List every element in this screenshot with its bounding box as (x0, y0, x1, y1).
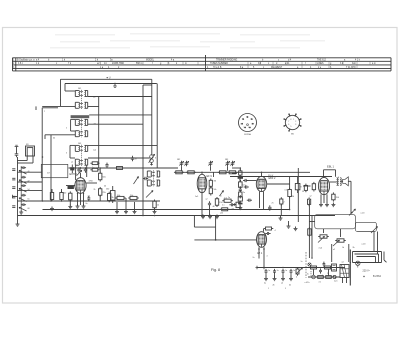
resistor R7 osc grid (115, 195, 126, 200)
ground left chain bottom (16, 222, 20, 226)
junction det a (240, 180, 242, 182)
resistor R13 on bus (227, 171, 237, 174)
svg-text:568 m: 568 m (136, 63, 142, 65)
capacitor C16 below V2 (229, 203, 234, 206)
label S1 (78, 88, 81, 90)
label tone values (362, 244, 367, 246)
wire loop B (355, 254, 379, 263)
label 100k det (243, 192, 246, 194)
wave switch contact SAc (19, 188, 27, 192)
wire mixer top lead (80, 173, 82, 178)
mixer pin dots (77, 167, 84, 194)
wire S2 right lead lower (88, 123, 143, 125)
svg-text:220 V~: 220 V~ (363, 270, 371, 273)
trimmer capacitor CV3 (208, 161, 212, 167)
svg-text:T 41 MHz: T 41 MHz (346, 67, 357, 69)
svg-text:3k: 3k (112, 197, 114, 199)
antenna symbol (113, 83, 117, 88)
svg-text:a64: a64 (93, 124, 96, 126)
svg-text:4a: 4a (264, 283, 266, 285)
svg-text:8a: 8a (86, 203, 88, 205)
svg-text:a2: a2 (333, 249, 335, 251)
svg-text:6: 6 (155, 158, 156, 160)
capacitor C-SAe (21, 203, 26, 206)
switch arm tone S7 (318, 236, 325, 242)
svg-text:100: 100 (63, 193, 66, 195)
capacitor left of chain b (12, 178, 15, 180)
wire bus y168 mid (99, 167, 178, 169)
capacitor left of chain e (12, 206, 15, 208)
wire wire R5 top (61, 189, 63, 193)
wire grid feed from V3 (303, 185, 311, 187)
svg-text:B Oscillator g.v. a: B Oscillator g.v. a (17, 59, 35, 62)
svg-text:2b: 2b (273, 285, 275, 287)
capacitor C-SAb (21, 176, 26, 179)
svg-text:2: 2 (250, 119, 251, 121)
AZ1 pin dot a (258, 248, 260, 250)
wire R6 bottom (69, 200, 71, 206)
ground filter 3 (281, 277, 285, 281)
svg-text:583: 583 (225, 159, 228, 161)
svg-text:4700: 4700 (89, 181, 93, 183)
svg-text:2: 2 (60, 100, 61, 102)
wire mixer anode lead right (86, 182, 97, 184)
wire wire filter 1 down (265, 274, 267, 277)
loop antenna lead a (18, 156, 28, 161)
resistor R22 detector (239, 190, 242, 198)
wire AZ1 lead down b (263, 247, 265, 251)
resistor R6 left of mixer3 (69, 191, 72, 201)
resistor R21 detector (239, 180, 247, 189)
wire V3 leads down2 (263, 192, 265, 210)
resistor R41 second row (324, 276, 333, 279)
S1 right lead to band switch (88, 96, 152, 98)
tube socket diagram B5 (283, 113, 301, 135)
svg-text:3: 3 (251, 123, 252, 125)
table grid of alignment data (13, 55, 392, 71)
wire tone vertical x331 (331, 244, 333, 262)
wire det left stub (232, 172, 237, 174)
detector diode blob (238, 177, 243, 179)
wire R25 to bus down (289, 197, 291, 210)
volume control arm at V2 (220, 191, 224, 197)
wire tone vertical x348 (348, 244, 350, 262)
svg-text:582: 582 (177, 159, 180, 161)
wire horizontal into S3 region (45, 134, 75, 136)
wire loopA drop left (323, 229, 325, 233)
label filter 2 (277, 270, 279, 272)
resistor R8 osc (128, 195, 139, 200)
wire vertical x98.7 S1-S2 (98, 97, 100, 169)
capacitor C19 detector mid (239, 187, 242, 192)
small lamp circle mains (308, 263, 311, 266)
svg-text:3: 3 (66, 153, 67, 155)
switch arm tone S6 (371, 227, 378, 234)
wire mixer leads down b (80, 193, 82, 205)
svg-text:8: 8 (290, 119, 291, 121)
svg-text:2k: 2k (94, 189, 96, 191)
tuning gang capacitor CV5 (230, 161, 234, 167)
wire B plus rail y176.5 (230, 176, 332, 178)
capacitor left of chain c (12, 187, 15, 189)
terminal tick mains left (263, 266, 265, 269)
svg-text:a4: a4 (281, 283, 283, 285)
svg-text:1a4: 1a4 (93, 150, 96, 152)
wire transformer lead b (346, 278, 348, 284)
resistor R37 mains dropper (309, 266, 319, 269)
svg-text:2: 2 (295, 121, 296, 123)
wire V2 top lead (201, 172, 203, 174)
terminal tick left (13, 195, 18, 198)
wire wire filter 4 down (290, 274, 292, 277)
switch arm at mixer grid (77, 170, 82, 176)
svg-text:LINES: LINES (317, 63, 324, 65)
wire wire R4 top (51, 189, 53, 193)
label V5 (257, 252, 263, 255)
AZ1 pin dot b (263, 248, 265, 250)
capacitor C7 on IF bus (105, 163, 108, 168)
wire wire filter 3 down (282, 274, 284, 277)
ghost print-through smudges (50, 33, 325, 49)
wire vertical bus x42.5 (41, 108, 43, 201)
tube V2 IF amplifier EF9 (197, 174, 207, 192)
wire bottom bus y215.5 (18, 215, 336, 217)
wire drop CV1 (181, 166, 183, 171)
svg-text:a m: a m (372, 63, 376, 65)
wire tone vertical x374 (373, 232, 375, 252)
svg-text:4: 4 (248, 127, 249, 129)
wire detector to V3 grid (247, 180, 256, 182)
label 100p (63, 193, 66, 195)
junction tone (351, 212, 352, 213)
resistor R9 osc (153, 199, 159, 209)
oscillator coil S4 (147, 170, 159, 186)
labels mixer extra (86, 189, 96, 205)
svg-text:50: 50 (302, 191, 304, 193)
wire S3 left lead (70, 144, 75, 146)
ground below V2 b (208, 215, 212, 219)
resistor R7a on IF bus (115, 167, 125, 170)
ground V4 a (319, 203, 323, 207)
tube V4 output EBL1 (318, 177, 329, 194)
output transformer TR2 (337, 177, 342, 187)
svg-text:b 5 c: b 5 c (18, 63, 24, 65)
wire V4 leads down a (320, 194, 322, 203)
wire wire mid down c (134, 202, 136, 210)
thermal fuse circle (312, 275, 316, 279)
electrolytic capacitor C25 (295, 177, 301, 194)
ground near tone (294, 227, 298, 231)
wire left chain vertical (17, 157, 19, 222)
capacitor left of chain d (12, 196, 15, 198)
wire vertical drop x151.8 (151, 79, 153, 155)
wire bus y209.5 extension (203, 209, 290, 211)
misc tiny labels V3 area (272, 190, 312, 205)
resistor R5 left of mixer2 (60, 191, 63, 202)
loop antenna lead b (18, 156, 34, 163)
wave switch contact SAa (19, 170, 27, 174)
svg-text:4a7: 4a7 (93, 97, 96, 99)
capacitor C10 padder (131, 156, 138, 161)
svg-text:5: 5 (285, 288, 286, 290)
wire transformer lead a (342, 278, 344, 284)
tuning gang capacitor CV1 (179, 161, 183, 167)
capacitor C8 mixer cathode (87, 196, 90, 201)
wire S1 lower-left lead (42, 105, 75, 107)
capacitor C-SAa (21, 166, 26, 169)
wire drop CV3 (210, 166, 212, 171)
svg-text:4b: 4b (213, 206, 215, 208)
svg-text:250 V: 250 V (268, 175, 274, 177)
svg-text:5: 5 (244, 127, 245, 129)
wire second mains row wire (308, 276, 340, 278)
wire V4 leads down b (323, 194, 325, 203)
wire chain wire right a (18, 171, 43, 173)
wire wire mid down d (154, 208, 156, 210)
wire R25 riser to B+ (289, 177, 291, 190)
svg-text:7: 7 (288, 121, 289, 123)
wire V3 leads down (259, 192, 261, 208)
resistor R1b above mixer (90, 167, 99, 171)
labels under filters (264, 283, 291, 291)
svg-text:517: 517 (47, 173, 50, 175)
aerial input transformer S1 (75, 90, 87, 109)
resistor R33 tone network (318, 235, 329, 238)
band switch arm SB1 (134, 177, 139, 185)
svg-text:a4: a4 (342, 261, 344, 263)
figure caption (211, 268, 220, 272)
label SAc (28, 189, 30, 191)
resistor R16 V2 cathode (215, 197, 223, 207)
label filter 4 (293, 270, 295, 272)
svg-text:a: a (44, 111, 45, 113)
labels below AZ1 (253, 256, 268, 260)
HT feed loop (194, 216, 256, 241)
svg-text:7: 7 (242, 119, 243, 121)
wire link rows a (313, 269, 315, 275)
wire S1 left lead (65, 90, 75, 92)
wire wire mid down b (125, 198, 127, 210)
svg-text:25k: 25k (103, 192, 106, 194)
label V1 (70, 173, 78, 176)
wire S3 right lead (88, 144, 157, 146)
wire horizontal y85 stub (143, 84, 152, 86)
wire loop tone A (315, 214, 356, 228)
svg-text:m: m (185, 63, 187, 65)
resistor R25 V3 anode load (288, 188, 292, 199)
switch dashes mains (310, 271, 312, 276)
ground filter 2 (273, 277, 277, 281)
wire V4 leads down c (326, 194, 328, 203)
labels V2 cluster (206, 199, 224, 215)
svg-text:4: 4 (275, 230, 276, 232)
wire S3 bottom leads to mixer a (75, 165, 77, 180)
svg-text:1a5: 1a5 (195, 196, 198, 198)
ground V3 area (279, 216, 283, 220)
svg-text:61: 61 (28, 199, 30, 201)
capacitor C36 mains2 (323, 262, 326, 267)
detector lower blob (238, 203, 242, 205)
resistor R15 V2 anode (209, 186, 212, 195)
wire long bottom bus y201 (51, 200, 160, 202)
resistor R39 beside filters (296, 267, 299, 276)
resistor R1 mixer screen (99, 171, 106, 181)
label 582 (177, 159, 180, 161)
wave switch contact SAd (19, 198, 27, 202)
ground below V2 c (215, 215, 219, 219)
knob circle second row (333, 275, 336, 278)
ground mixer a (76, 204, 80, 208)
wire S3 right lead lower (88, 157, 150, 159)
wire TR2 to speaker (340, 180, 343, 182)
svg-text:TUBES NUMBER: TUBES NUMBER (210, 63, 228, 65)
resistor R36 above AZ1 (264, 227, 274, 230)
switch arm tone S8 (333, 240, 340, 246)
shading bar over S2 (71, 115, 90, 118)
loudspeaker LS (343, 177, 349, 186)
resistor R10 on bus (174, 171, 184, 174)
resistor R20 detector top (239, 169, 242, 177)
label 583 (225, 159, 228, 161)
svg-text:1a: 1a (301, 261, 303, 263)
wire S3 left vertical (69, 145, 71, 158)
wire mixer leads down c (83, 193, 85, 205)
resistor R1a above mixer (90, 162, 99, 165)
coil L5 detector (239, 171, 240, 182)
ground mixer c (82, 204, 86, 208)
label SAb (28, 181, 30, 183)
mains transformer TR3 (340, 265, 349, 278)
wire loop bottom (353, 262, 382, 264)
svg-text:563: 563 (78, 143, 81, 145)
capacitor C-SAd (21, 194, 26, 197)
wire riser to tone loops (311, 216, 313, 259)
wire R26 down (280, 204, 282, 216)
ground near B+ bottom (287, 224, 291, 228)
resistor R32 tone (308, 227, 311, 237)
junction mixer top (80, 167, 82, 169)
svg-text:1k: 1k (157, 205, 159, 207)
svg-text:TRIMMER PADDING: TRIMMER PADDING (216, 59, 237, 62)
wire AZ1 to mains bus (263, 251, 265, 268)
doubled wire to tuner (42, 107, 58, 109)
svg-text:Fig. 8: Fig. 8 (211, 268, 220, 272)
ground R31 (331, 203, 335, 207)
svg-text:25: 25 (272, 203, 274, 205)
svg-text:6: 6 (241, 123, 242, 125)
coil can box left of mixer (41, 164, 68, 177)
svg-text:8: 8 (301, 187, 302, 189)
external aerial terminal (15, 145, 19, 152)
wire vertical x60.5 into area (60, 79, 62, 106)
capacitor C30 near AZ1 (265, 232, 270, 235)
mains input terminal (255, 266, 257, 269)
capacitor C15 below V2 (208, 201, 211, 206)
dashed chassis boundary (305, 252, 307, 278)
ground detector (238, 206, 242, 210)
junction det b (240, 186, 242, 188)
wire loop C (357, 257, 376, 263)
capacitor C26 below V3 (268, 205, 271, 210)
ground mid d (153, 210, 157, 214)
padding capacitor block (106, 186, 115, 203)
svg-text:4 ab: 4 ab (319, 248, 323, 250)
wire chain wire right b (18, 181, 43, 183)
solder point (363, 276, 364, 277)
wave switch contact SAb (19, 180, 27, 184)
capacitor C21 detector2 (244, 185, 249, 188)
resistor R31 V4 cathode bias (332, 192, 340, 201)
wire S2 left vertical (70, 119, 72, 131)
tuning gang capacitor CV2 (184, 161, 188, 167)
svg-text:1: 1 (246, 117, 247, 119)
ground below R6 (68, 205, 72, 209)
svg-text:50k: 50k (117, 195, 120, 197)
capacitor C35 mains (319, 268, 322, 273)
micro labels mixer (47, 162, 106, 198)
resistor R18 decoupling2 (220, 208, 230, 211)
ground below R4 (50, 207, 54, 211)
wire wire R1 up (99, 168, 101, 173)
wire drop CV4 (227, 166, 229, 171)
wire wire mid down a (116, 202, 118, 210)
wire V2 lead down (201, 193, 203, 216)
label SAd (28, 199, 30, 201)
wire wire V2 anode up (213, 172, 215, 177)
wire mixer leads down a (77, 193, 79, 205)
grid coupling block (70, 165, 74, 174)
resistor R27 decoupler (304, 184, 307, 193)
wire AZ1 top parts wire (263, 229, 265, 232)
svg-text:4 1: 4 1 (319, 282, 322, 284)
table row text entries (17, 59, 376, 69)
svg-text:2a: 2a (228, 197, 230, 199)
ground mid a (115, 210, 119, 214)
wire vertical x65 into S1 (64, 84, 66, 92)
labels mains cluster (307, 273, 329, 279)
svg-text:70 a 4 B: 70 a 4 B (213, 67, 222, 69)
resistor R11 on bus (186, 171, 196, 174)
trimmer T1 stack (149, 154, 156, 165)
wire detector link to bus (232, 167, 240, 169)
top cap feedback wire (324, 170, 336, 178)
misc tiny labels detector (214, 181, 231, 207)
wire vertical x143 (142, 85, 144, 216)
svg-text:a2: a2 (206, 199, 208, 201)
node U terminal (107, 76, 111, 79)
resistor R40 second row (316, 276, 325, 279)
micro labels IF stack (44, 97, 96, 155)
tube V1 frequency changer ECH4 (75, 178, 86, 194)
svg-text:EBF 2: EBF 2 (269, 177, 277, 180)
svg-text:23456 7890: 23456 7890 (112, 63, 125, 65)
svg-text:b4: b4 (53, 138, 55, 140)
wire bus y172.3 (176, 171, 310, 173)
capacitor C1 aerial series (15, 152, 19, 157)
svg-text:4b: 4b (104, 186, 106, 188)
svg-text:e 41: e 41 (285, 63, 290, 65)
svg-text:MODEL: MODEL (146, 60, 155, 62)
capacitor C22 detector3 (247, 199, 252, 202)
resistor R2 mixer anode (99, 187, 106, 197)
svg-text:4: 4 (267, 256, 268, 258)
voltage selector plug (332, 264, 337, 271)
wire S2 right lead top (89, 114, 152, 116)
wire left chain vertical2 (20, 166, 22, 210)
wire vertical drop x157.2 (156, 84, 158, 169)
resistor R26 V3 grid leak (280, 197, 286, 206)
wire loopA drop right (340, 229, 342, 237)
